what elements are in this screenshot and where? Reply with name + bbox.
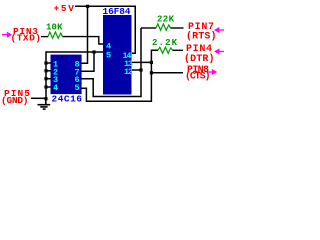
wire 24C16 pin7 to Vss line	[82, 52, 95, 71]
node +5V junction dot	[86, 5, 89, 8]
node pin4 dot	[44, 85, 47, 88]
wire CTS line	[151, 72, 183, 74]
ground symbol	[38, 98, 51, 109]
resistor R3 2.2K zigzag	[158, 47, 173, 53]
chip U2 24C16 body	[51, 55, 82, 95]
chip U1 16F84 body	[103, 15, 132, 95]
wire GND lead	[31, 97, 46, 99]
wire +5V to 24C16 pin8	[82, 7, 88, 63]
node pin12 dot	[139, 68, 142, 71]
node GND dot	[44, 97, 47, 100]
node pin13 dot	[150, 61, 153, 64]
arrow DTR (magenta, pointing left)	[214, 48, 224, 54]
resistor R1 10K lead and zigzag	[48, 32, 63, 38]
wire SDA net: 24C16 pin5 under chip up to 2.2K	[82, 50, 159, 101]
svg-text:22K: 22K	[157, 15, 175, 25]
svg-text:5: 5	[75, 83, 80, 93]
arrow TXD input (magenta, pointing right)	[2, 32, 12, 38]
svg-text:4: 4	[53, 83, 58, 93]
svg-text:16F84: 16F84	[103, 6, 131, 17]
node pin3 dot	[44, 77, 47, 80]
svg-text:(DTR): (DTR)	[184, 53, 215, 65]
svg-text:24C16: 24C16	[52, 94, 83, 105]
wire Vss/GND net: rail corner to 16F84 pin5	[46, 52, 103, 99]
wire 24C16 pin3 stub	[46, 78, 51, 80]
wire 16F84 pin13 stub	[132, 61, 152, 63]
arrow RTS (magenta, pointing left)	[214, 27, 224, 33]
wire SCL net: 24C16 pin6 under chip up to 22K	[82, 28, 142, 97]
svg-text:(GND): (GND)	[1, 95, 29, 106]
node CTS dot	[150, 71, 153, 74]
wire 16F84 pin12 stub	[132, 69, 141, 71]
arrow CTS (magenta, pointing right)	[208, 69, 217, 75]
svg-text:5: 5	[106, 51, 111, 61]
svg-text:10K: 10K	[46, 23, 63, 33]
svg-text:(TXD): (TXD)	[11, 33, 42, 44]
svg-text:(CTS): (CTS)	[185, 70, 211, 82]
resistor R2 22K leads and zigzag	[141, 27, 156, 29]
svg-text:2.2K: 2.2K	[152, 38, 178, 48]
node pin1 dot	[44, 61, 47, 64]
wire 24C16 pin2 stub	[46, 70, 51, 72]
wire 24C16 pin4 stub	[46, 86, 51, 88]
svg-text:12: 12	[124, 67, 133, 77]
wire +5V rail	[75, 6, 135, 53]
svg-text:+5V: +5V	[54, 3, 75, 14]
wire 24C16 pin1 stub	[46, 62, 51, 64]
node pin2 dot	[44, 69, 47, 72]
svg-text:(RTS): (RTS)	[186, 30, 217, 42]
node Vss/pin7 dot	[92, 50, 95, 53]
